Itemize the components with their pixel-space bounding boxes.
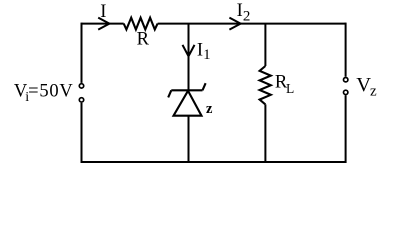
svg-text:2: 2 [243,9,251,25]
svg-text:I: I [197,40,203,60]
resistor R (horizontal zigzag) [124,18,158,30]
wire middle branch upper (top wire down to zener cathode bar) [188,24,190,91]
svg-text:=50V: =50V [28,81,74,101]
svg-text:I: I [237,1,243,21]
svg-text:I: I [100,2,106,22]
terminal circle left lower [79,98,83,102]
wire left vertical lower (terminal down to bottom-left corner) [81,103,83,162]
svg-text:L: L [286,81,294,96]
svg-text:1: 1 [203,47,210,63]
zener diode Z right bent end [203,83,206,90]
zener diode Z left bent end [168,90,171,97]
wire middle branch lower (zener anode down to bottom wire) [188,116,190,162]
wire left vertical upper (top-left corner down to + terminal) [81,23,83,83]
svg-text:V: V [356,74,371,96]
wire load branch lower (RL down to bottom wire) [264,104,266,162]
terminal circle right lower [344,90,348,94]
terminal circle left upper [79,84,83,88]
svg-text:R: R [137,29,150,49]
wire top-right segment (resistor R to top-right corner) [158,23,346,25]
arrow for current I1 (downward) [183,45,195,56]
svg-text:z: z [206,101,213,117]
wire bottom (bottom-left corner to bottom-right corner) [81,161,346,163]
svg-text:z: z [370,83,377,99]
wire load branch upper (top wire down to RL) [264,24,266,66]
wire right vertical upper (top-right corner to Vz + terminal) [345,23,347,77]
terminal circle right upper [344,78,348,82]
zener diode Z triangle (anode, pointing up) [174,91,202,116]
wire right vertical lower (Vz - terminal to bottom-right corner) [345,95,347,163]
arrow for current I2 [229,18,240,30]
arrow for current I [98,18,109,30]
wire top-left segment (left corner to resistor R) [82,23,124,25]
resistor RL (vertical zigzag) [260,66,271,104]
zener diode Z cathode bar [171,89,202,91]
